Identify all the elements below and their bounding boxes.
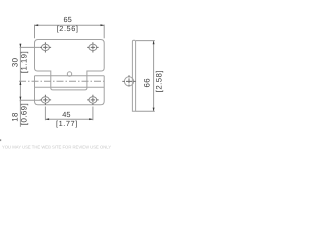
barrel bottom edge: [35, 86, 105, 88]
pin oil hole: [67, 72, 71, 76]
side view profile: [132, 40, 135, 111]
dimension 18 [0.69] left lower: [20, 81, 42, 127]
svg-text:45: 45: [62, 110, 70, 119]
dimension 65 [2.56] top: [35, 25, 105, 39]
side view barrel: [124, 77, 133, 86]
top hinge leaf with center tab: [35, 40, 105, 90]
svg-text:[1.19]: [1.19]: [20, 51, 29, 73]
svg-text:[2.56]: [2.56]: [57, 24, 79, 33]
svg-text:18: 18: [11, 112, 20, 122]
hole top-left: [40, 42, 51, 52]
svg-text:[0.69]: [0.69]: [20, 103, 29, 125]
page edge artifact dot: [0, 139, 1, 141]
hole bottom-left: [40, 95, 51, 105]
screw holes (circle + crosshair): [40, 42, 138, 105]
pivot centerline: [19, 80, 106, 82]
svg-text:YOU MAY USE THE WEB SITE FOR R: YOU MAY USE THE WEB SITE FOR REVIEW USE …: [2, 145, 111, 150]
barrel crosshair: [122, 80, 138, 82]
hole bottom-right: [87, 95, 98, 105]
bottom hinge leaf: [35, 76, 105, 105]
svg-text:66: 66: [143, 78, 152, 88]
hole top-right: [87, 42, 98, 52]
svg-text:[2.58]: [2.58]: [155, 70, 164, 92]
svg-text:30: 30: [11, 57, 20, 67]
svg-text:65: 65: [63, 15, 71, 24]
svg-text:[1.77]: [1.77]: [56, 119, 78, 128]
barrel top edge: [35, 75, 105, 77]
dimension 30 [1.19] left: [20, 44, 40, 84]
dimension 45 [1.77] bottom: [45, 107, 93, 121]
dimension 66 [2.58] right: [136, 41, 155, 112]
